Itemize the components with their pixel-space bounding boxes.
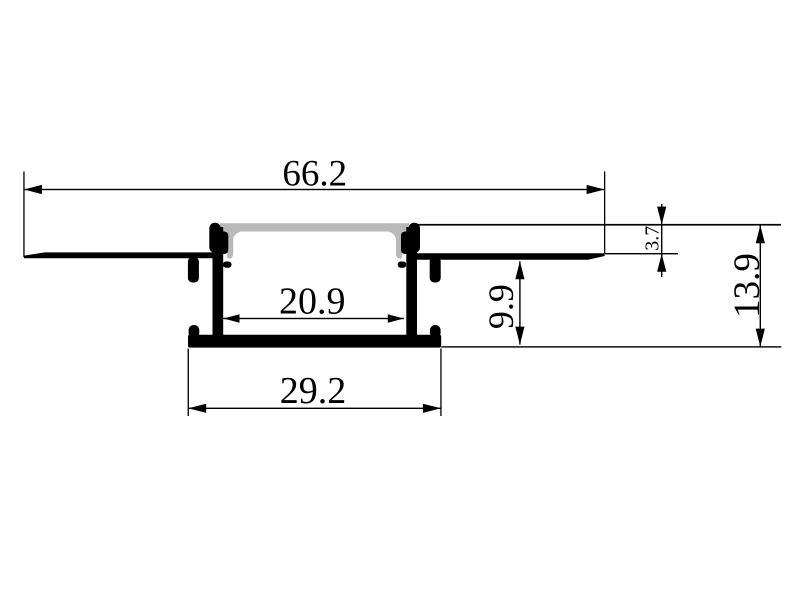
diffuser left leg	[227, 232, 233, 259]
svg-text:66.2: 66.2	[282, 154, 347, 195]
base plate	[188, 335, 441, 348]
extension line 3.7 bottom	[605, 253, 678, 254]
left inner tab	[223, 262, 232, 268]
dimension line 13.9	[760, 225, 761, 347]
svg-text:29.2: 29.2	[280, 370, 347, 412]
arrow 13.9 top	[756, 225, 765, 243]
right wing flange bar	[412, 253, 605, 259]
arrow 9.9 top	[515, 261, 524, 279]
right wing top surface line	[417, 224, 781, 226]
left base nub	[189, 325, 200, 338]
dimension line 29.2	[188, 408, 441, 409]
diffuser right fillet	[388, 231, 396, 239]
arrow 20.9 left	[224, 314, 240, 323]
arrow 29.2 right	[423, 404, 441, 413]
left wall top nub	[209, 223, 220, 253]
right inner tab	[398, 262, 407, 268]
right wall	[406, 227, 417, 339]
left wall	[213, 227, 224, 339]
left plaster tab	[188, 257, 199, 283]
left wing flange	[24, 252, 213, 258]
arrow 9.9 bottom	[515, 327, 524, 345]
right plaster tab	[430, 257, 441, 283]
svg-text:3.7: 3.7	[642, 226, 664, 251]
dimension line 9.9	[519, 261, 520, 344]
left diffuser hook	[219, 232, 229, 255]
right diffuser hook	[401, 232, 411, 255]
svg-text:9.9: 9.9	[481, 284, 521, 329]
extension line bottom (13.9)	[441, 346, 781, 347]
right base nub	[430, 325, 441, 338]
diffuser right leg	[396, 232, 402, 259]
diffuser cover (gray band)	[220, 223, 409, 231]
arrow 29.2 left	[188, 404, 206, 413]
dimension line 3.7	[661, 204, 662, 277]
arrow 20.9 right	[388, 314, 404, 323]
arrow 3.7 top	[657, 207, 666, 225]
arrow 3.7 bottom	[657, 254, 666, 272]
dimension line 20.9	[223, 318, 404, 319]
diffuser left fillet	[233, 231, 241, 239]
dimension line 66.2	[24, 189, 605, 190]
svg-text:13.9: 13.9	[727, 253, 768, 318]
extension line left (66.2)	[23, 172, 24, 258]
arrow 66.2 left	[24, 185, 42, 194]
extension line left (29.2)	[188, 349, 189, 417]
arrow 13.9 bottom	[756, 329, 765, 347]
svg-text:20.9: 20.9	[279, 281, 346, 323]
extension line right (66.2)	[604, 172, 605, 254]
extension line right (29.2)	[440, 349, 441, 417]
arrow 66.2 right	[587, 185, 605, 194]
right wall top nub	[409, 223, 420, 253]
